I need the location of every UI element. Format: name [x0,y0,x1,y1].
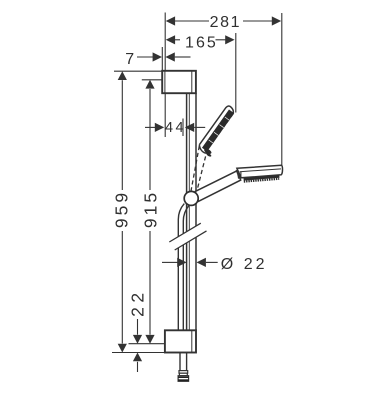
dimension diameter 22 right tail [206,261,218,263]
handshower head top band line [240,169,281,172]
dimension 44 right tail [194,126,205,128]
phantom handshower tip outline [199,145,208,153]
extension line right x=281.8 for dim 281 [281,13,283,166]
svg-text:4: 4 [165,120,173,136]
dimension 44 left tail [145,126,155,128]
svg-text:22: 22 [128,288,148,316]
slider ball [184,191,198,205]
dimension 281 line [170,20,209,22]
extension line y=79.8 for dim 915 top [142,79,163,81]
phantom handshower tip dark mark lower [206,152,212,157]
svg-text:7: 7 [125,51,134,68]
phantom handshower dashed line D1 [191,146,199,191]
bottom bracket [165,330,196,352]
svg-text:959: 959 [112,190,132,228]
extension line x=183 for dim 44 [182,119,184,137]
handshower head body [237,165,283,178]
dimension 22 vertical line [137,319,139,335]
dimension 959 down arrow [118,344,127,353]
dimension 7 line [137,56,154,58]
dimension 22 down arrow [133,335,142,344]
dimension 7 right-pointing arrow [153,52,162,61]
dimension 44 right arrow [185,123,194,132]
extension line L1 y=343.7 for dim 22 [129,343,165,345]
phantom handshower face slits [209,117,229,143]
hose collar [179,371,188,374]
svg-text:281: 281 [210,14,242,31]
phantom handshower dashed line D2 upper [207,114,233,150]
phantom handshower dashed line D2 lower [197,150,208,192]
dimension 22 lower tail [137,362,139,372]
dimension 915 vertical line [149,89,151,190]
dimension 165 line [170,39,180,41]
dimension 915 up arrow [145,80,154,89]
top bracket [162,71,196,93]
dimension 7 left-pointing arrow [165,52,174,61]
handshower handle [195,171,240,202]
wall bar [186,93,188,232]
phantom handshower spray face dark band [205,111,232,149]
extension line bracket left edge x=162.3 [161,47,163,71]
handshower spray face stipple lower row [244,179,279,182]
hose tube below bracket [179,353,181,371]
extension line left reference x=165.2 [164,13,166,138]
phantom handshower back outline [199,106,233,145]
svg-text:4: 4 [175,120,183,136]
hose nut ribbed [178,376,189,382]
top bracket left lip line [164,71,166,93]
dimension 959 vertical line [121,80,123,190]
handshower spray face stipple [244,177,280,180]
handshower handle-head junction [237,170,240,179]
dimension diameter 22 left arrow [177,258,186,267]
dimension 165 right arrow [225,35,234,44]
extension line L2 y=352.5 bottom [112,352,196,354]
svg-text:165: 165 [185,35,218,52]
dimension diameter 22 left tail [162,261,178,263]
dimension 959 up arrow [118,71,127,80]
dimension 44 left arrow [155,123,164,132]
break symbol diagonal B [175,231,207,250]
dimension 281 right arrow [272,16,281,25]
svg-text:915: 915 [140,190,160,228]
dimension 281 left arrow [166,16,175,25]
handshower head left ring edge [240,172,242,178]
wall bar highlight line [188,94,190,230]
hose upper curve from slider [178,204,184,237]
svg-text:Ø 22: Ø 22 [221,256,268,273]
top bracket right lip line [191,71,193,93]
break symbol diagonal A [169,223,201,242]
phantom handshower tip dark mark [203,148,212,155]
bottom bracket right lip line [191,330,193,352]
dimension 165 left arrow [166,35,175,44]
dimension diameter 22 right arrow [197,258,206,267]
hose nut upper ring [179,373,187,376]
dimension 22 up arrow [133,353,142,362]
extension line y=71.2 for dim 959 top [114,70,162,72]
dimension 7 tail [175,56,191,58]
dimension 915 down arrow [145,335,154,344]
hose lower straight to bottom bracket [177,248,179,330]
extension line x=235.8 for dim 165 [235,33,237,113]
